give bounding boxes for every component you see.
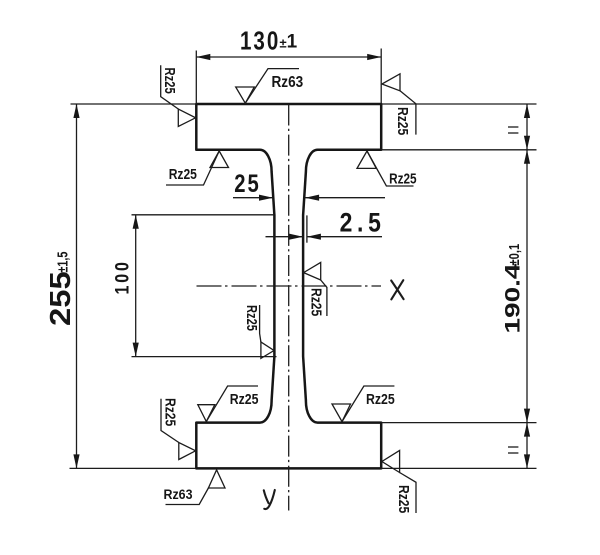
extension line bottom-left (255 dim) bbox=[70, 467, 197, 469]
svg-text:Rz25: Rz25 bbox=[389, 170, 417, 187]
svg-text:Rz25: Rz25 bbox=[244, 305, 261, 331]
roughness symbol Rz25 under top flange left bbox=[166, 151, 229, 185]
svg-text:Rz63: Rz63 bbox=[272, 74, 304, 91]
dimension line 2.5 right bbox=[307, 236, 382, 238]
arrowhead right seg2 up bbox=[524, 150, 530, 164]
roughness symbol Rz25 top-left edge bbox=[161, 65, 196, 126]
arrowhead 255 bottom bbox=[73, 454, 79, 468]
svg-text:Rz25: Rz25 bbox=[169, 166, 198, 183]
svg-text:Rz25: Rz25 bbox=[162, 398, 178, 427]
svg-text:25: 25 bbox=[234, 169, 260, 198]
I-beam profile outline bbox=[196, 104, 381, 468]
extension line 100 bottom bbox=[132, 356, 277, 358]
equality mark bottom bbox=[508, 446, 518, 448]
roughness symbol Rz25 above bottom flange right bbox=[332, 386, 395, 422]
svg-text:Rz25: Rz25 bbox=[396, 485, 412, 514]
arrowhead 130 left bbox=[196, 54, 210, 60]
dimension line 130 bbox=[196, 56, 381, 58]
arrowhead right seg3 up bbox=[524, 423, 530, 437]
extension line 100 top bbox=[132, 214, 274, 216]
dimension line 25 left bbox=[233, 197, 273, 199]
label x bbox=[391, 280, 403, 299]
svg-text:Rz25: Rz25 bbox=[395, 107, 411, 136]
roughness symbol Rz25 above bottom flange left bbox=[198, 386, 259, 422]
roughness symbol Rz25 web right bbox=[304, 262, 327, 316]
roughness symbol Rz25 top-right extension bbox=[382, 74, 416, 136]
dimension line 2.5 left bbox=[266, 236, 304, 238]
extension line right lower flange top bbox=[381, 422, 536, 424]
roughness symbol Rz63 top flange bbox=[236, 69, 304, 104]
svg-text:Rz25: Rz25 bbox=[308, 288, 324, 317]
svg-text:2.5: 2.5 bbox=[340, 208, 386, 238]
arrowhead 130 right bbox=[367, 54, 381, 60]
arrowhead right seg1 down bbox=[524, 136, 530, 150]
reference line 2.5 offset bbox=[306, 215, 308, 242]
svg-text:±0,1: ±0,1 bbox=[505, 244, 522, 266]
equality mark top bbox=[508, 126, 518, 128]
arrowhead right top up bbox=[524, 104, 530, 118]
svg-text:255: 255 bbox=[44, 271, 76, 326]
extension line 130 right bbox=[380, 49, 382, 105]
svg-text:±1,5: ±1,5 bbox=[54, 252, 71, 273]
arrowhead 2.5 left bbox=[289, 234, 303, 240]
svg-text:Rz63: Rz63 bbox=[164, 486, 193, 502]
dimension line 25 right bbox=[305, 197, 385, 199]
dimension line 100 bbox=[135, 215, 137, 357]
svg-text:Rz25: Rz25 bbox=[230, 391, 259, 407]
svg-text:Rz25: Rz25 bbox=[366, 391, 395, 407]
roughness symbol Rz25 under top flange right bbox=[357, 151, 417, 187]
centerline axis y (vertical) bbox=[288, 105, 290, 511]
extension line right bottom edge bbox=[381, 467, 536, 469]
svg-text:130: 130 bbox=[240, 26, 280, 55]
extension line top-left (255 dim) bbox=[71, 103, 197, 105]
roughness symbol Rz63 below bottom flange bbox=[164, 470, 226, 505]
roughness symbol Rz25 bottom flange right edge bbox=[382, 450, 416, 513]
arrowhead 255 top bbox=[73, 104, 79, 118]
arrowhead right bottom down bbox=[524, 454, 530, 468]
extension line right top edge bbox=[381, 103, 536, 105]
svg-text:190.4: 190.4 bbox=[501, 263, 525, 333]
arrowhead 2.5 right bbox=[307, 234, 321, 240]
extension line 130 left bbox=[195, 51, 197, 105]
dimension line 190.4 bbox=[526, 104, 528, 468]
svg-text:100: 100 bbox=[111, 259, 133, 294]
svg-text:±1: ±1 bbox=[280, 31, 298, 52]
roughness symbol Rz25 web left bbox=[244, 305, 274, 358]
centerline axis x (horizontal) bbox=[197, 285, 382, 287]
label y bbox=[264, 490, 275, 509]
roughness symbol Rz25 bottom flange left edge bbox=[161, 398, 196, 460]
arrowhead right seg2 down bbox=[524, 409, 530, 423]
arrowhead 25 right bbox=[305, 195, 319, 201]
dimension line 255 bbox=[76, 104, 78, 468]
arrowhead 25 left bbox=[259, 195, 273, 201]
svg-text:Rz25: Rz25 bbox=[162, 68, 179, 94]
arrowhead 100 bottom bbox=[133, 343, 139, 357]
arrowhead 100 top bbox=[133, 215, 139, 229]
extension line right flange bottom bbox=[381, 149, 536, 151]
